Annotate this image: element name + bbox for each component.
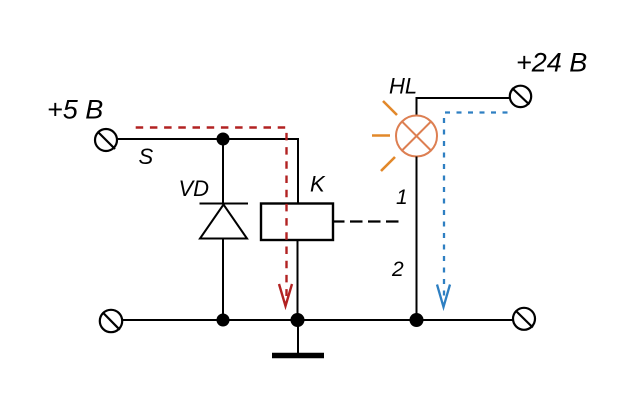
red dashed current path (+5 В circuit) <box>136 128 292 307</box>
ground rail wire <box>122 319 513 321</box>
diode VD lead (top) <box>222 139 224 204</box>
terminal X1 (+5 В input) <box>95 129 117 151</box>
wire: top of lamp branch to +24 В terminal <box>417 98 511 116</box>
wire: +5 В terminal to node S junction <box>117 138 223 140</box>
svg-text:S: S <box>139 144 154 169</box>
mechanical link (dashed) from relay K to contact <box>332 220 400 222</box>
junction dot (diode to ground rail) <box>217 314 230 327</box>
terminal X2 (+24 В input) <box>510 86 531 107</box>
svg-text:+24 В: +24 В <box>516 48 587 78</box>
wire: lamp bottom through contacts 1-2 to ground rail <box>416 157 418 321</box>
junction dot (relay to ground rail) <box>291 313 305 327</box>
junction dot (lamp branch to ground rail) <box>410 313 424 327</box>
wire: relay coil bottom to ground rail <box>297 240 299 320</box>
terminal X4 (ground, right) <box>513 308 535 330</box>
diode VD triangle (anode, pointing up) <box>200 205 247 239</box>
wire: corner down to relay coil top <box>297 138 299 204</box>
wire: junction to corner above relay <box>223 138 298 140</box>
svg-text:+5 В: +5 В <box>47 95 103 125</box>
diode VD cathode bar <box>200 203 249 205</box>
svg-text:HL: HL <box>389 74 417 99</box>
blue dashed current path (+24 В circuit) <box>437 113 508 308</box>
svg-text:2: 2 <box>391 258 404 281</box>
svg-text:K: K <box>310 172 326 197</box>
svg-text:1: 1 <box>396 186 408 209</box>
terminal X3 (ground, left) <box>100 310 122 332</box>
ground symbol <box>272 320 324 356</box>
svg-text:VD: VD <box>179 176 210 201</box>
lamp HL symbol <box>396 116 437 157</box>
relay coil K <box>261 204 333 241</box>
lamp light rays <box>372 101 397 171</box>
diode VD lead (bottom) to ground rail <box>222 239 224 321</box>
junction dot (top node) <box>217 133 230 146</box>
